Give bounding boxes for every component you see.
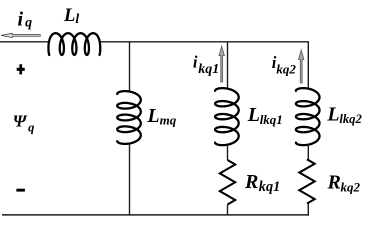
label Llkq2 [326, 104, 362, 126]
label Ll [63, 6, 79, 26]
inductor Ll (stator leakage inductance, series in top rail) [48, 33, 100, 55]
wire: Lmq branch bottom stub [129, 144, 131, 215]
svg-text:R: R [244, 171, 258, 193]
node C (bottom rail / Lmq branch junction) [128, 214, 130, 216]
svg-text:L: L [146, 105, 159, 127]
svg-text:mq: mq [160, 113, 177, 128]
svg-text:l: l [75, 11, 79, 26]
inductor Llkq1 (damper 1 leakage inductance) [215, 88, 239, 145]
label Lmq [146, 105, 176, 128]
label Rkq2 [327, 171, 361, 194]
label i_q [18, 8, 33, 30]
inductor Llkq2 (damper 2 leakage inductance) [296, 88, 320, 145]
resistor Rkq1 (damper 1 resistance) [220, 160, 235, 205]
svg-text:kq1: kq1 [198, 62, 219, 77]
svg-text:kq2: kq2 [341, 179, 361, 194]
wire: bottom rail left segment (port to node C) [2, 214, 130, 216]
wire: kq2 branch top stub [307, 42, 309, 90]
svg-text:lkq1: lkq1 [260, 112, 283, 127]
svg-text:kq1: kq1 [259, 179, 280, 195]
wire: top rail left segment (port to Ll) [0, 41, 50, 43]
svg-text:i: i [18, 8, 24, 30]
svg-text:q: q [28, 120, 34, 134]
wire: kq1 mid stub (coil to resistor) [227, 145, 229, 160]
label i_kq1 [193, 52, 219, 77]
wire: kq1 branch bottom stub [227, 205, 229, 215]
svg-text:L: L [63, 6, 75, 26]
svg-text:Ψ: Ψ [13, 111, 28, 130]
current arrow i_kq1 (points up) [219, 46, 224, 82]
wire: kq2 mid stub (coil to resistor) [307, 145, 309, 159]
wire: top rail middle segment (node A to node B) [130, 41, 228, 43]
svg-text:R: R [327, 171, 341, 193]
wire: kq2 branch bottom stub [307, 204, 309, 215]
label i_kq2 [272, 53, 297, 77]
label Llkq1 [247, 104, 283, 127]
svg-text:kq2: kq2 [276, 62, 296, 77]
svg-text:i: i [193, 52, 198, 71]
label - (port negative polarity) [16, 189, 25, 192]
wire: top rail segment (Ll to node A) [99, 41, 130, 43]
inductor Lmq (magnetizing inductance) [117, 91, 141, 144]
svg-text:L: L [326, 104, 339, 126]
label Psi_q (q-axis flux linkage) [13, 111, 35, 134]
node B (top rail / kq1 branch junction) [226, 41, 228, 43]
svg-text:q: q [25, 15, 32, 30]
wire: top rail right segment (node B to kq2 branch corner) [228, 41, 310, 43]
wire: bottom rail right segment (node D to kq2 branch corner) [228, 214, 310, 216]
svg-text:lkq2: lkq2 [339, 112, 362, 126]
current arrow i_q (points left, at q-axis port) [1, 33, 40, 37]
wire: kq1 branch top stub [227, 42, 229, 90]
label Rkq1 [244, 171, 280, 195]
wire: Lmq branch top stub [129, 42, 131, 93]
current arrow i_kq2 (points up) [299, 50, 304, 83]
node A (top rail / Lmq branch junction) [128, 41, 130, 43]
svg-text:L: L [247, 104, 260, 126]
resistor Rkq2 (damper 2 resistance) [299, 159, 314, 203]
label + (port positive polarity) [17, 64, 25, 74]
wire: bottom rail middle segment (node C to node D) [130, 214, 228, 216]
node D (bottom rail / kq1 branch junction) [226, 214, 228, 216]
